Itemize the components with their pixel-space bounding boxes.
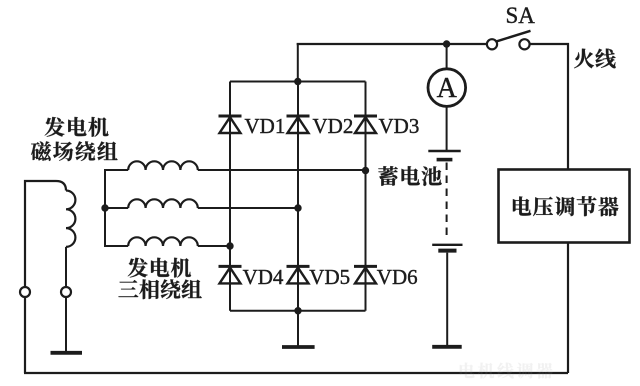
label: 火线 (hot wire)	[574, 49, 616, 69]
battery: top cell short plate	[437, 158, 453, 162]
diode VD5	[287, 266, 310, 283]
wire: right brush down to ground	[65, 297, 67, 352]
wire: riser from top bus to main top wire	[297, 43, 299, 82]
svg-text:VD4: VD4	[243, 265, 284, 289]
wire: ammeter to battery	[446, 106, 448, 150]
ground: bridge negative	[282, 345, 315, 349]
voltage regulator box	[499, 170, 630, 243]
wire: top wire right of switch + right vertical down to regulator	[530, 44, 568, 169]
svg-text:VD6: VD6	[377, 265, 418, 289]
diode VD2	[287, 116, 310, 133]
diode VD3	[354, 116, 377, 133]
label: 磁场绕组 (field winding) line 2	[31, 141, 117, 161]
svg-text:VD1: VD1	[245, 114, 286, 138]
svg-text:SA: SA	[506, 3, 536, 28]
label: 电压调节器 (voltage regulator)	[513, 196, 619, 216]
battery: bottom cell long plate	[432, 244, 462, 246]
wire: bridge column 2	[297, 82, 299, 311]
wire: left vertical + top corner to field coil	[25, 181, 66, 373]
phase winding V: wire + coil, middle	[104, 199, 298, 208]
wire: bridge column 1	[229, 82, 231, 311]
diode VD6	[354, 266, 377, 283]
wire: bottom horizontal bus	[24, 372, 568, 374]
svg-text:VD5: VD5	[309, 265, 350, 289]
label VD3	[379, 114, 420, 138]
svg-text:VD2: VD2	[313, 114, 354, 138]
brush terminal circle left	[20, 287, 30, 297]
battery: bottom cell short plate	[438, 249, 456, 253]
node: ammeter branch junction	[443, 40, 450, 47]
ammeter A (circle)	[428, 69, 466, 107]
svg-text:A: A	[437, 73, 458, 104]
wire: ammeter stem upper	[446, 44, 448, 69]
diode VD4	[219, 266, 242, 283]
wire: bridge top bus	[230, 81, 366, 83]
node: bottom bus to ground junction	[294, 307, 301, 314]
node: phase W to column 1	[226, 242, 233, 249]
battery: top cell long plate	[428, 150, 460, 152]
inductor: generator field winding coil	[66, 191, 75, 247]
label: 发电机 (generator)	[128, 258, 191, 278]
wire: field coil bottom to brush circle	[65, 247, 67, 292]
label VD6	[377, 265, 418, 289]
wire: main top wire (left of switch)	[297, 43, 487, 45]
label VD2	[313, 114, 354, 138]
diode VD1	[219, 116, 242, 133]
phase winding W: wire + coil, bottom	[104, 237, 230, 246]
wire: battery to ground	[446, 253, 448, 345]
label SA	[506, 3, 536, 28]
phase winding U: wire + coil, top	[104, 161, 366, 170]
label VD5	[309, 265, 350, 289]
wire: star-point bus (left)	[104, 170, 106, 246]
node: phase U to column 3	[362, 167, 369, 174]
ground: battery negative	[432, 345, 462, 349]
wire: dashed battery middle	[446, 163, 448, 241]
label: 蓄电池 (battery)	[378, 166, 441, 186]
label: 三相绕组 (three-phase winding)	[118, 279, 201, 299]
brush terminal circle right	[61, 287, 71, 297]
wire: bridge column 3	[365, 82, 367, 311]
label: 发电机 (generator) line 1	[45, 117, 109, 137]
svg-text:VD3: VD3	[379, 114, 420, 138]
node: phase V to column 2	[294, 204, 301, 211]
switch SA: contact circles and blade	[487, 31, 531, 50]
label VD1	[245, 114, 286, 138]
wire: regulator bottom to bottom bus	[567, 243, 569, 373]
ground: left (field winding)	[51, 351, 83, 355]
node: riser junction on top bus	[294, 78, 301, 85]
label VD4	[243, 265, 284, 289]
watermark (faint)	[460, 363, 553, 379]
wire: ground stem under bridge	[297, 311, 299, 346]
node: star point middle junction	[101, 204, 108, 211]
wire: bridge bottom bus	[230, 310, 366, 312]
